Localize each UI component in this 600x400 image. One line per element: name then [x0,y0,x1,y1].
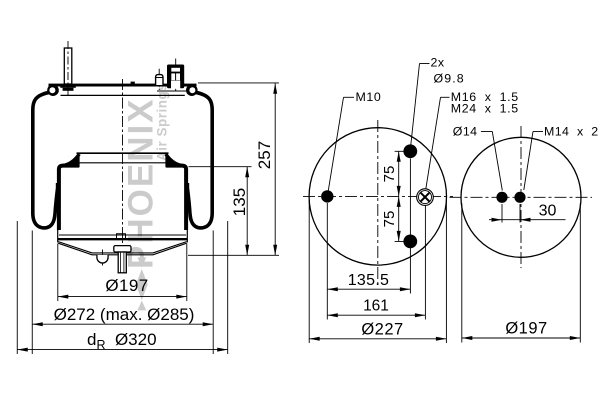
leader 14 [481,131,492,133]
svg-text:Air Springs: Air Springs [155,83,170,161]
svg-text:Ø9.8: Ø9.8 [434,71,465,85]
bellows outline right [187,92,212,228]
ext 197 left [461,203,463,343]
bolt hole top [403,144,417,158]
dimension 272 max 285 [32,305,213,326]
leader 2x [420,63,430,65]
bellows curl right over piston [166,166,186,230]
svg-text:161: 161 [363,297,389,314]
small stud centerline bottom [102,250,104,267]
dimension 30 [489,203,566,222]
rivet bump on plate [131,82,135,84]
middle view circle [309,128,446,265]
leader M16 [441,96,450,98]
bead plate [49,84,197,87]
ext 227 left [308,200,310,343]
piston lower edge right [186,229,188,243]
hole M10 [321,190,333,202]
ext line 197 right [186,244,188,302]
ext 30 left [501,204,503,223]
ext line 320 right [227,221,229,354]
dimension 135 [230,167,249,256]
ext line bottom shared [188,254,279,256]
svg-text:75: 75 [381,211,398,228]
ext 227 right [445,200,447,343]
svg-text:135: 135 [230,188,249,216]
dimension 161 [327,297,425,317]
bead right [186,84,198,96]
right vertical centerline [520,126,522,268]
dimension dR 320 [17,330,227,352]
valve centerline [175,59,177,93]
piston bottom thin line [59,234,186,236]
ext bolts down [409,159,411,294]
hole 14 [496,192,507,203]
bellows outline left [33,92,58,228]
ext bolt bottom horizontal [395,240,414,242]
hole M14 [514,192,525,203]
piston top face [77,152,169,154]
svg-text:Ø272 (max. Ø285): Ø272 (max. Ø285) [54,305,195,324]
svg-text:257: 257 [255,141,274,169]
middle horizontal centerline [303,195,453,197]
stud centerline [67,41,69,96]
dimension 135.5 [327,272,410,291]
dimension 197 [58,276,187,299]
ext line 272 left [31,231,33,355]
svg-text:Ø197: Ø197 [105,276,148,295]
dimension 75 top [381,151,401,196]
piston lower edge left [57,229,59,243]
ext 30 right [519,204,521,223]
svg-text:Ø227: Ø227 [361,320,403,338]
center bolt head [114,246,131,252]
bellows top shoulder line [61,94,185,96]
bolt hole bottom [403,235,417,249]
small stud dome [97,255,108,263]
svg-text:M24 x 1.5: M24 x 1.5 [451,102,519,116]
svg-text:30: 30 [539,203,557,220]
plate lip line right [157,90,186,92]
leader M10 [344,96,355,98]
ext 197 right [579,203,581,343]
svg-text:M14 x 2: M14 x 2 [544,124,599,138]
middle vertical centerline [377,120,379,287]
watermark PHOENIX logo diamond [136,257,148,310]
dimension 257 [255,83,277,255]
svg-text:135.5: 135.5 [348,272,390,289]
svg-text:M10: M10 [356,90,382,104]
center bolt shaft [118,252,126,273]
bead left [47,84,59,96]
svg-text:Ø14: Ø14 [453,124,478,138]
ext M10 down [326,203,328,320]
air boss centerline [158,69,160,90]
bellows curl left over piston [59,166,79,230]
ext line 320 left [16,221,18,354]
svg-text:2x: 2x [431,56,445,70]
air fitting crossed circle [417,189,434,206]
ext line 197 left [57,244,59,302]
leader M14 [533,131,543,133]
ext line 272 right [212,231,214,355]
welded nut [117,234,126,239]
svg-text:75: 75 [381,166,398,183]
piston bottom plate [58,238,188,240]
svg-text:Ø197: Ø197 [505,320,547,338]
dish upper line [58,242,186,253]
dimension 197 right [462,320,581,341]
air connection boss [156,75,163,85]
valve assembly [167,65,184,89]
ext bolt top horizontal [395,150,414,152]
stud M10 top left [60,48,76,91]
dimension 75 bottom [381,196,401,241]
piston rim line [69,162,177,164]
left view centerline [122,79,124,273]
right horizontal centerline [450,196,593,198]
right view circle [461,137,581,257]
ext line top for 257 [198,82,279,84]
dimension 227 [309,320,446,341]
ext line for 135 [189,166,252,168]
dish lower line [58,243,186,255]
ext fitting down [424,206,426,320]
